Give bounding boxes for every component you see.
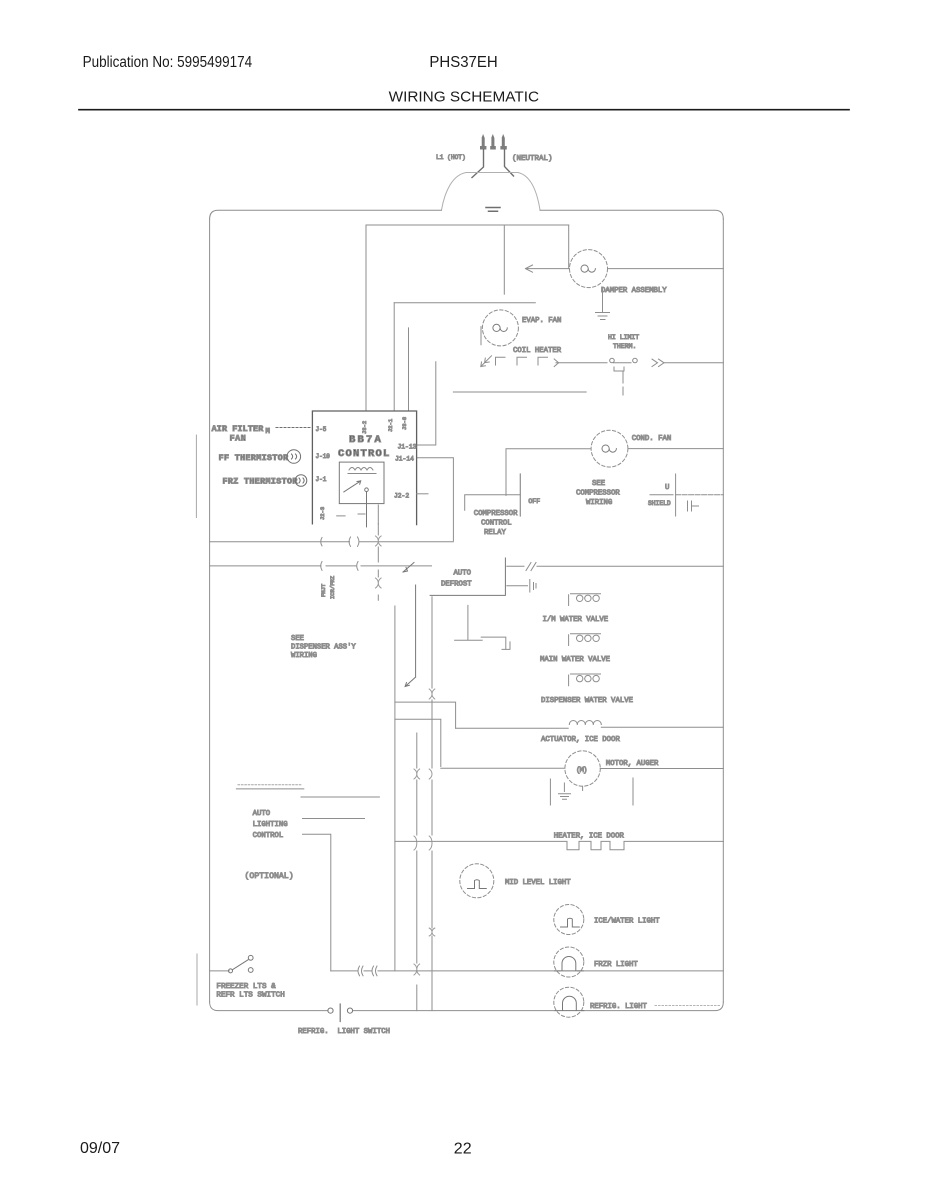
wire compressor feed corner [506,449,591,496]
connector marks on bus upper [321,537,359,546]
solenoid L1 icemaker water valve [569,594,601,606]
coil heater element symbol [481,356,559,367]
lighting control terminal 2 [301,796,379,798]
break marks [526,563,536,571]
svg-text:DISPENSER WATER VALVE: DISPENSER WATER VALVE [541,697,633,705]
svg-text:CONTROL: CONTROL [253,832,284,840]
svg-text:(OPTIONAL): (OPTIONAL) [245,871,294,881]
damper assembly motor circle [570,250,608,288]
mid level light lamp [460,864,494,898]
svg-text:COMPRESSOR: COMPRESSOR [474,510,518,518]
svg-text:REFR LTS SWITCH: REFR LTS SWITCH [216,992,284,1000]
svg-text:FF THERMISTOR: FF THERMISTOR [219,454,289,463]
svg-text:FAN: FAN [230,435,247,444]
evap fan motor circle [482,310,518,346]
trunk dispenser 3 [431,597,433,1011]
relay stub from control [417,493,428,495]
ff thermistor symbol [287,450,301,464]
thermostat bracket and stem [614,367,624,395]
evap fan inner detail [493,324,507,331]
svg-text:U: U [665,484,669,492]
svg-text:L1 (HOT): L1 (HOT) [436,154,466,161]
trunk dispenser 2 lower [416,733,418,1011]
svg-text:LIGHTING: LIGHTING [253,821,288,829]
dotted trail [655,1005,720,1007]
defrost control box [430,558,505,595]
wire thermostat to right edge [664,362,723,364]
plug P1 prong left [480,134,486,150]
cond fan motor circle [591,430,628,467]
trunk dispenser 2 upper [405,585,416,687]
lighting control terminal 4 [303,834,331,971]
svg-text:J2-3: J2-3 [319,507,326,520]
connector marks freezer wire [358,966,377,976]
svg-text:FRZR LIGHT: FRZR LIGHT [594,961,638,969]
svg-text:J3-2: J3-2 [361,421,368,434]
damper motor inner detail [581,265,595,272]
cond fan inner detail [602,445,616,452]
svg-text:J1-14: J1-14 [395,456,414,463]
capacitor symbol [688,501,699,511]
wire evap fan lead [480,327,482,345]
plug P1 prong middle [490,134,496,150]
svg-text:REFRIG. LIGHT SWITCH: REFRIG. LIGHT SWITCH [298,1028,390,1036]
wire trunk to control box top pin3 [408,328,410,411]
trunk 3 connector squiggles [429,689,435,936]
svg-text:J-1: J-1 [316,476,327,483]
wire dispenser cross 1 [395,702,456,728]
refrig light lamp [554,987,584,1017]
svg-text:FMJT: FMJT [320,583,327,597]
defrost cap stub [507,580,536,593]
svg-text:(NEUTRAL): (NEUTRAL) [512,155,553,163]
svg-text:ACTUATOR, ICE DOOR: ACTUATOR, ICE DOOR [541,736,620,744]
wire motor row left [441,767,565,769]
wire evap feed horizontal [394,302,535,304]
page edge mark lower left [196,954,198,1005]
svg-text:FREEZER LTS &: FREEZER LTS & [216,983,276,991]
solenoid L3 dispenser water valve [569,674,601,686]
frzr light lamp [554,947,584,977]
svg-text:MID LEVEL LIGHT: MID LEVEL LIGHT [505,879,571,887]
svg-text:M: M [266,428,271,436]
svg-text:SHIELD: SHIELD [648,500,671,507]
svg-text:HI LIMIT: HI LIMIT [608,334,639,341]
wire trunk to control box top pin1 [365,225,367,411]
wire trunk to control box top pin2 [393,303,395,411]
refrig light switch on bottom edge [328,1008,333,1013]
wire dispenser cross 2 [395,719,441,766]
svg-text:22: 22 [454,1140,472,1157]
wire mid horizontal [453,391,586,393]
outer box top edge [210,210,724,219]
relay contact bar [519,474,521,516]
svg-text:HEATER, ICE DOOR: HEATER, ICE DOOR [554,833,625,841]
harness arrow on defrost bus [403,563,414,573]
svg-text:MOTOR, AUGER: MOTOR, AUGER [606,760,659,768]
svg-text:J-5: J-5 [316,426,327,433]
svg-text:MAIN WATER VALVE: MAIN WATER VALVE [540,656,610,664]
wire top feed horizontal [366,224,569,226]
ice water light lamp [554,905,584,935]
actuator coil [569,721,601,725]
svg-text:WIRING: WIRING [291,652,317,660]
svg-text:AIR FILTER: AIR FILTER [212,425,264,434]
wire J1-14 out [417,458,454,541]
page edge mark upper left [195,435,197,518]
relay switch arm [344,481,361,492]
svg-text:THERM.: THERM. [613,343,636,350]
relay contact [365,488,369,492]
wire capacitor to right edge [676,494,724,496]
wire J1-13 riser [417,362,436,445]
svg-text:CONTROL: CONTROL [481,520,512,528]
ground symbol below plug [486,208,500,212]
bottom pin dash [337,514,365,516]
svg-text:RELAY: RELAY [484,529,507,537]
svg-text:PHS37EH: PHS37EH [429,54,497,71]
wire cond fan to right edge [628,448,723,450]
svg-text:WIRING: WIRING [586,499,612,507]
motor ground leg [559,783,571,799]
svg-text:Publication No: 5995499174: Publication No: 5995499174 [83,54,253,71]
wire motor row right [600,768,723,770]
svg-text:DAMPER ASSEMBLY: DAMPER ASSEMBLY [601,287,667,295]
freezer lights wire with connectors [331,970,724,972]
wire heater to thermostat [556,362,607,364]
lighting control terminal 3 [303,818,365,820]
defrost thermostat symbol [610,358,664,366]
solenoid L2 main water valve [569,634,601,646]
outer box left edge [209,219,211,1002]
actuator wire right [601,726,723,728]
relay box inside control [339,462,384,504]
svg-text:J2-2: J2-2 [394,493,409,500]
svg-text:J1-13: J1-13 [398,444,417,451]
outer box bottom edge (neutral wire with switch and lamp gaps) [210,1002,724,1011]
lighting control terminal 1 [236,788,303,790]
wire defrost bus [210,565,432,567]
svg-text:09/07: 09/07 [80,1140,120,1157]
control board box U1 [312,411,416,525]
plug P1 prong right [500,134,506,150]
svg-text:DEFROST: DEFROST [441,581,472,589]
svg-text:ICR/FRZ: ICR/FRZ [329,575,336,599]
svg-text:COND. FAN: COND. FAN [632,435,671,443]
wire defrost out with break [507,565,724,567]
wire hot lead from plug [472,150,484,178]
trunk dispenser 1 [394,606,396,971]
actuator wire left [456,727,569,729]
svg-text:COIL HEATER: COIL HEATER [513,347,562,355]
freezer door switch [229,969,233,973]
frz thermistor symbol [295,475,307,487]
freezer door switch wire [210,970,230,972]
relay coil squiggle [348,468,376,474]
wire return bus upper [210,541,454,543]
svg-text:BB7A: BB7A [349,434,383,446]
wire neutral lead from plug [505,150,514,177]
wire damper drop vertical [568,225,570,269]
dashed lead to control [276,427,312,429]
icemaker step connector [481,637,510,649]
heater ice door wire and element [395,841,723,849]
svg-text:EVAP. FAN: EVAP. FAN [522,317,561,325]
svg-text:CONTROL: CONTROL [338,448,391,460]
svg-text:J-10: J-10 [316,453,331,460]
svg-text:J2-1: J2-1 [387,418,394,432]
trunk 2 connector squiggles [414,769,420,975]
trunk below control box [377,524,379,601]
svg-text:OFF: OFF [528,498,540,505]
outer box right edge [722,219,724,1002]
svg-text:AUTO: AUTO [454,570,472,578]
svg-text:SEE: SEE [592,480,605,488]
icemaker tee symbol [455,605,483,640]
title rule line [79,109,849,111]
ground at damper [596,288,610,320]
damper connector arrow [526,265,570,272]
relay contact lead down [366,492,368,527]
svg-text:AUTO: AUTO [253,810,271,818]
compressor relay wire [465,495,521,511]
connector marks on defrost bus [321,562,358,571]
auger motor circle [565,751,600,786]
trunk connector squiggles [376,536,382,588]
motor pin bars [550,778,633,805]
svg-text:J3-8: J3-8 [401,417,408,430]
svg-text:WIRING SCHEMATIC: WIRING SCHEMATIC [389,89,540,106]
svg-text:REFRIG. LIGHT: REFRIG. LIGHT [590,1003,648,1011]
svg-text:I/M WATER VALVE: I/M WATER VALVE [543,616,609,624]
svg-text:SEE: SEE [291,635,304,643]
wire stub vertical center [503,226,505,294]
run capacitor bar [675,474,677,516]
svg-text:FRZ THERMISTOR: FRZ THERMISTOR [223,478,298,487]
svg-text:ICE/WATER LIGHT: ICE/WATER LIGHT [594,918,660,926]
svg-text:(M): (M) [576,767,587,775]
svg-text:COMPRESSOR: COMPRESSOR [576,490,620,498]
svg-text:DISPENSER ASS'Y: DISPENSER ASS'Y [291,644,356,652]
wire damper to right edge [608,268,724,270]
plug bell outline [442,173,541,211]
control box bottom pin [377,505,379,524]
